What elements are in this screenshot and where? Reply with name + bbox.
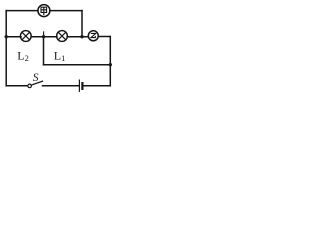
wire right drop from top branch	[81, 11, 83, 37]
wire top left segment	[6, 10, 38, 12]
battery BT1	[79, 80, 82, 91]
junction node J2	[80, 35, 83, 38]
junction node J1	[42, 35, 45, 38]
wire between L1 and junction J2	[67, 36, 88, 38]
lamp L2	[20, 31, 31, 42]
meter A (jia) U1	[38, 5, 50, 17]
switch S	[28, 81, 43, 88]
wire bottom left segment	[6, 85, 27, 87]
wire right edge	[109, 37, 111, 86]
junction node at left rail and middle wire	[5, 35, 8, 38]
node stub at junction J1	[43, 32, 45, 37]
junction node right rail and lower rail	[109, 63, 112, 66]
wire lower rail	[44, 64, 111, 66]
wire middle left segment	[6, 36, 21, 38]
wire between L2 and L1	[31, 36, 57, 38]
wire switch to battery	[43, 85, 79, 87]
wire top right segment	[50, 10, 82, 12]
wire from meter B to right edge	[98, 36, 110, 38]
meter B (yi) U2	[88, 31, 98, 41]
wire drop from J1 to lower rail	[43, 37, 45, 65]
svg-text:S: S	[33, 72, 39, 84]
wire left edge	[5, 11, 7, 86]
wire battery to right edge	[84, 85, 111, 87]
lamp L1	[57, 31, 68, 42]
